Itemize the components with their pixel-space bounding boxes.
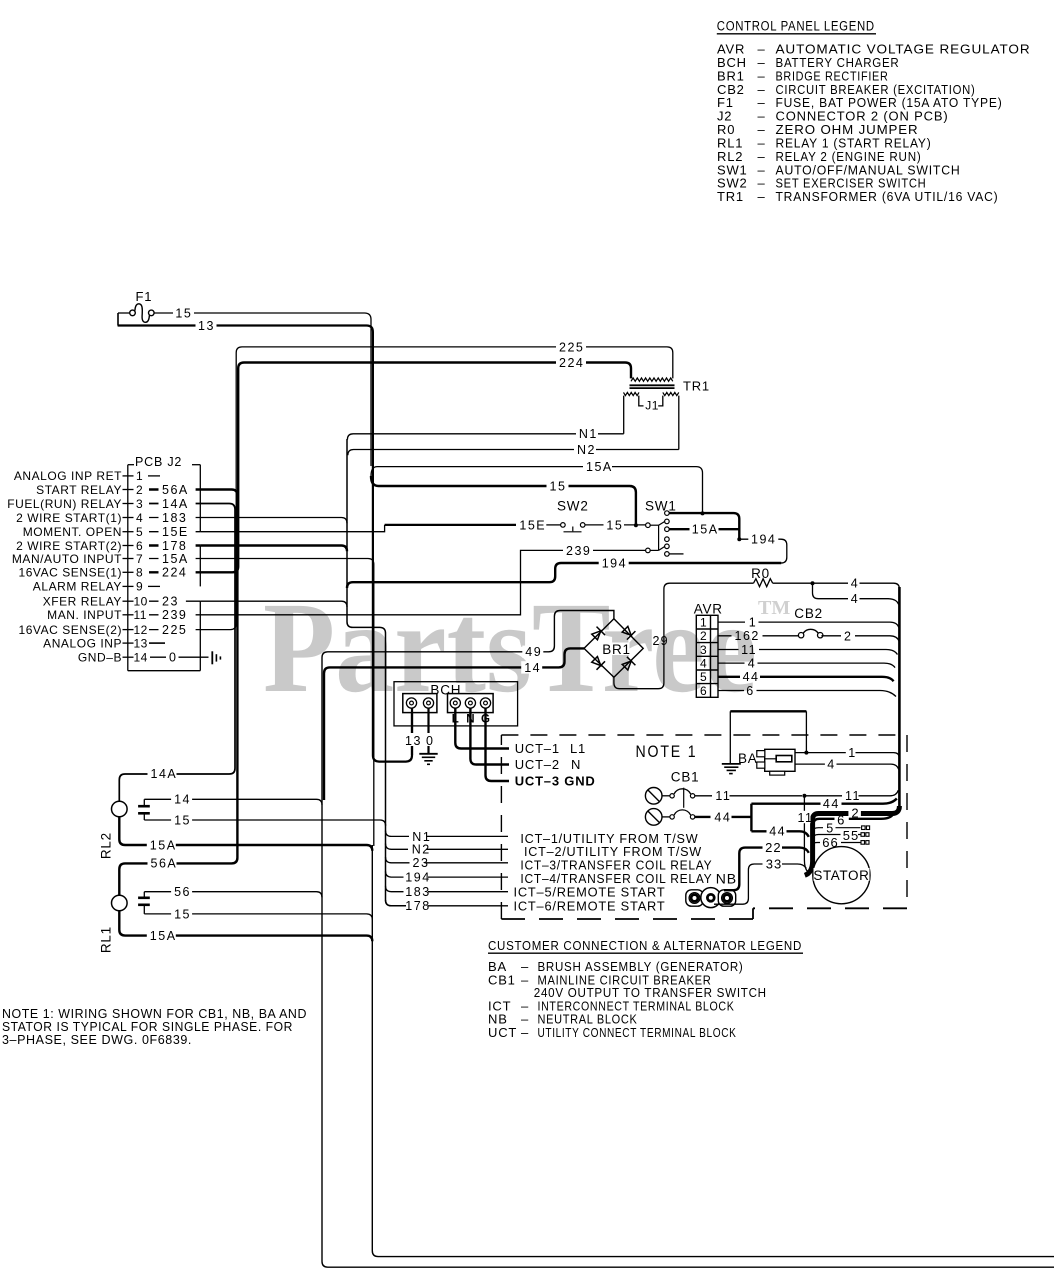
svg-text:PCB J2: PCB J2	[135, 455, 182, 469]
wire SW1 top contact to 194 node	[669, 513, 739, 539]
wire 1 AVR pin1 to bus	[718, 622, 899, 628]
svg-text:UCT–2: UCT–2	[515, 757, 560, 772]
svg-text:8: 8	[136, 566, 143, 580]
svg-text:162: 162	[735, 629, 760, 643]
wire 49-14 harness vertical right exit	[372, 845, 1054, 1257]
svg-text:CB1: CB1	[488, 972, 516, 987]
svg-text:ANALOG INP: ANALOG INP	[43, 636, 122, 650]
wire 0 from J2 pin14 to ground	[150, 656, 209, 658]
ground symbol at BA	[722, 763, 741, 765]
wire 194 from node to right elbow	[739, 539, 787, 563]
svg-text:N: N	[571, 757, 581, 772]
svg-text:1: 1	[848, 746, 856, 760]
svg-text:0: 0	[426, 734, 434, 748]
svg-text:6: 6	[136, 539, 143, 553]
wire 14 RL2 contact to harness	[144, 799, 322, 806]
wire 22 NB to stator bundle	[724, 848, 809, 891]
wire 33 NB to stator bundle	[714, 864, 806, 904]
svg-text:11: 11	[845, 789, 861, 803]
wire 44 CB1 to stator and bus	[695, 816, 752, 818]
wire 5 stator to lug	[813, 828, 861, 832]
svg-text:178: 178	[162, 539, 187, 553]
svg-text:ALARM RELAY: ALARM RELAY	[33, 580, 122, 594]
svg-text:1: 1	[136, 469, 143, 483]
svg-text:5: 5	[136, 525, 143, 539]
wire 162 AVR pin2 to CB2	[718, 635, 799, 637]
brush assembly BA	[730, 710, 806, 712]
wire 49 BR1 top to harness left	[322, 611, 1054, 1268]
svg-text:13: 13	[134, 636, 148, 650]
svg-text:2: 2	[844, 629, 852, 643]
svg-text:GND–B: GND–B	[78, 651, 122, 665]
svg-text:MOMENT. OPEN: MOMENT. OPEN	[23, 525, 122, 539]
wire 15A from U to SW1 common	[371, 467, 703, 513]
svg-text:CB1: CB1	[671, 770, 700, 785]
svg-text:6: 6	[746, 684, 754, 698]
svg-text:UTILITY CONNECT TERMINAL BLOCK: UTILITY CONNECT TERMINAL BLOCK	[538, 1025, 737, 1040]
svg-text:56A: 56A	[162, 483, 189, 497]
svg-text:2: 2	[700, 629, 707, 643]
wire 194 harness to ICT-4	[386, 871, 509, 877]
svg-text:SW1: SW1	[645, 499, 677, 514]
wire 15E J2 pin5 to SW2	[200, 525, 384, 532]
node junction 11	[802, 794, 806, 798]
svg-text:3: 3	[136, 497, 143, 511]
wire 4 AVR pin4 to bus	[718, 663, 895, 668]
svg-text:TR1: TR1	[683, 379, 710, 394]
svg-text:14: 14	[174, 793, 191, 807]
wire 15A J2 pin7 down to relay coils	[200, 559, 373, 847]
svg-text:11: 11	[798, 811, 814, 825]
svg-text:4: 4	[851, 576, 859, 590]
svg-text:15: 15	[174, 907, 191, 921]
svg-text:13: 13	[405, 734, 422, 748]
wire harness bundle to ICT terminals	[347, 439, 406, 906]
svg-text:XFER RELAY: XFER RELAY	[43, 595, 122, 609]
wire 14A J2 pin3 to RL2 coil	[119, 504, 235, 802]
svg-text:3: 3	[700, 643, 707, 657]
svg-text:15A: 15A	[692, 523, 719, 537]
wire 6 stator to bus	[814, 814, 894, 825]
svg-text:RL2: RL2	[99, 832, 114, 859]
wire 0 BCH to ground	[427, 709, 429, 754]
svg-text:UCT–1: UCT–1	[515, 741, 560, 756]
wire 23 harness to ICT-3	[386, 857, 509, 863]
svg-text:178: 178	[405, 899, 430, 913]
wire L BCH to UCT-1	[455, 709, 509, 749]
svg-text:15A: 15A	[150, 929, 177, 943]
wire 2 bus bottom to stator bundle	[805, 806, 900, 875]
svg-text:L1: L1	[570, 741, 586, 756]
svg-text:4: 4	[700, 656, 707, 670]
svg-text:4: 4	[136, 511, 143, 525]
svg-text:1: 1	[700, 615, 707, 629]
svg-text:4: 4	[851, 592, 859, 606]
svg-text:–: –	[521, 972, 529, 987]
wire 44 AVR pin5 to bus	[718, 677, 894, 682]
svg-text:5: 5	[700, 670, 707, 684]
svg-text:22: 22	[765, 840, 781, 855]
svg-text:44: 44	[714, 810, 731, 824]
wire 15 from F1 to junction U	[154, 313, 371, 466]
svg-text:BR1: BR1	[602, 642, 631, 657]
wire 29 BR1 bottom to R0	[614, 583, 754, 689]
svg-text:4: 4	[748, 656, 756, 670]
wire G BCH to UCT-3	[486, 709, 510, 782]
svg-text:ICT–5/REMOTE START: ICT–5/REMOTE START	[514, 884, 666, 899]
wire 15A SW1 middle contact	[669, 528, 689, 530]
svg-text:9: 9	[136, 580, 143, 594]
wire 66 stator to lug	[811, 843, 860, 848]
wire 225 J2 pin12 to TR1 primary	[200, 347, 673, 630]
svg-text:7: 7	[136, 552, 143, 566]
svg-text:14A: 14A	[151, 767, 178, 781]
svg-text:TR1: TR1	[717, 189, 744, 204]
svg-text:55: 55	[843, 828, 859, 843]
svg-text:225: 225	[559, 340, 584, 354]
svg-text:23: 23	[413, 856, 430, 870]
wire 15 thick from U to SW2/SW1 junction	[371, 476, 636, 525]
svg-text:33: 33	[766, 856, 782, 871]
svg-text:RL1: RL1	[99, 926, 114, 953]
svg-text:15: 15	[175, 307, 192, 321]
svg-text:10: 10	[134, 595, 148, 609]
wire N2 harness to ICT-2	[386, 844, 509, 850]
dashed box NOTE 1	[501, 734, 907, 736]
svg-text:11: 11	[715, 789, 731, 803]
wire 224 J2 pin8 to TR1 primary	[200, 363, 631, 573]
svg-text:0: 0	[169, 651, 177, 665]
svg-text:ICT–6/REMOTE START: ICT–6/REMOTE START	[514, 899, 666, 914]
svg-text:CB2: CB2	[794, 606, 823, 621]
svg-text:16VAC SENSE(2): 16VAC SENSE(2)	[18, 623, 122, 637]
node junction 15 at SW2 output	[634, 523, 638, 527]
svg-text:14A: 14A	[162, 497, 189, 511]
svg-text:5: 5	[826, 821, 834, 835]
svg-text:15: 15	[606, 518, 623, 532]
J2 no-connect dashes pins 1 9 13	[148, 475, 160, 477]
svg-text:56: 56	[174, 885, 191, 899]
relay RL1	[112, 895, 128, 911]
connector J1 on TR1 secondary	[639, 396, 644, 406]
svg-text:14: 14	[524, 661, 541, 675]
node junction BA output 1	[804, 751, 808, 755]
svg-text:BA: BA	[738, 751, 758, 766]
wire 178 J2 pin6 into harness	[200, 546, 347, 552]
wire 239 J2 pin11 to SW1	[200, 550, 645, 614]
svg-text:6: 6	[700, 684, 707, 698]
node junction 194	[737, 537, 741, 541]
wire 178 harness to ICT-6	[386, 900, 509, 906]
svg-text:AVR: AVR	[694, 602, 723, 617]
svg-text:16VAC SENSE(1): 16VAC SENSE(1)	[18, 566, 122, 580]
svg-text:44: 44	[743, 670, 760, 684]
wire 15A RL2 coil to harness	[119, 817, 372, 851]
ground symbol at J2 pin14	[211, 651, 213, 664]
svg-text:44: 44	[769, 825, 786, 839]
wire 194 SW1 to harness	[347, 563, 781, 588]
svg-text:N2: N2	[577, 443, 596, 457]
wire 23 J2 pin10 into harness	[200, 601, 347, 607]
svg-text:MAN/AUTO INPUT: MAN/AUTO INPUT	[12, 552, 122, 566]
svg-text:194: 194	[602, 557, 627, 571]
wire 15A RL1 coil to harness	[119, 911, 372, 942]
wire N1 TR1 secondary to harness	[347, 396, 623, 440]
node junction 15A at SW1	[701, 511, 705, 515]
svg-text:SW2: SW2	[557, 499, 589, 514]
battery charger BCH	[394, 682, 518, 726]
svg-text:2 WIRE START(1): 2 WIRE START(1)	[16, 511, 122, 525]
svg-text:15: 15	[174, 813, 191, 827]
svg-text:TM: TM	[758, 597, 790, 619]
svg-text:15A: 15A	[162, 552, 189, 566]
svg-text:13: 13	[198, 319, 215, 333]
svg-text:R0: R0	[751, 566, 770, 581]
svg-text:44: 44	[823, 797, 840, 811]
SW1 stub contact	[669, 553, 683, 555]
wire 13 label at BCH	[411, 709, 413, 756]
svg-text:15E: 15E	[519, 518, 546, 532]
svg-text:F1: F1	[136, 289, 153, 304]
wire 15 RL2 contact to harness	[144, 813, 385, 825]
svg-text:STATOR: STATOR	[813, 868, 869, 883]
svg-text:FUEL(RUN) RELAY: FUEL(RUN) RELAY	[7, 497, 122, 511]
svg-text:CUSTOMER CONNECTION & ALTERNAT: CUSTOMER CONNECTION & ALTERNATOR LEGEND	[488, 938, 802, 953]
wire 15 RL1 contact to harness	[144, 905, 372, 920]
svg-text:ANALOG INP RET: ANALOG INP RET	[14, 469, 122, 483]
svg-text:MAN. INPUT: MAN. INPUT	[47, 608, 122, 622]
svg-text:–: –	[758, 189, 766, 204]
wire 14 BR1 left to relay RL2	[324, 648, 584, 800]
svg-text:49: 49	[525, 645, 542, 659]
bridge rectifier BR1	[584, 619, 643, 678]
wire 55 stator to lug	[813, 835, 861, 840]
svg-text:11: 11	[134, 608, 147, 622]
svg-text:11: 11	[741, 643, 757, 657]
wire 183 harness to ICT-5	[386, 886, 509, 892]
wire 4 BA to bus	[795, 764, 899, 770]
svg-text:225: 225	[162, 623, 187, 637]
svg-text:UCT: UCT	[488, 1025, 517, 1040]
wire 11 AVR pin3 to bus	[718, 650, 898, 655]
wire 6 AVR pin6 to bus	[718, 691, 896, 697]
svg-text:15A: 15A	[586, 460, 613, 474]
svg-text:14: 14	[134, 651, 148, 665]
svg-text:23: 23	[162, 595, 179, 609]
svg-text:PartsTree: PartsTree	[263, 576, 757, 720]
svg-text:56A: 56A	[151, 857, 178, 871]
svg-text:N2: N2	[412, 843, 431, 857]
stator	[813, 847, 870, 904]
svg-text:TRANSFORMER (6VA UTIL/16 VAC): TRANSFORMER (6VA UTIL/16 VAC)	[776, 189, 999, 204]
wire 11 node to stator bundle	[804, 796, 807, 872]
svg-text:N1: N1	[412, 830, 431, 844]
svg-text:CONTROL PANEL LEGEND: CONTROL PANEL LEGEND	[717, 19, 875, 34]
wire 1 BA to bus	[795, 753, 899, 759]
svg-text:12: 12	[134, 623, 148, 637]
svg-text:NB: NB	[716, 871, 737, 887]
svg-text:183: 183	[162, 511, 187, 525]
svg-text:239: 239	[162, 608, 187, 622]
wire N2 TR1 secondary to harness	[348, 396, 679, 456]
J2 pin ticks and numbers	[123, 475, 134, 477]
svg-text:224: 224	[162, 566, 187, 580]
svg-text:UCT–3 GND: UCT–3 GND	[515, 774, 596, 789]
wire 2 CB2 to bus	[821, 636, 899, 642]
wire 183 J2 pin4 into harness	[200, 518, 347, 524]
node junction on R0 wire	[811, 581, 815, 585]
svg-text:START RELAY: START RELAY	[36, 483, 122, 497]
wire N BCH to UCT-2	[470, 709, 509, 765]
ground symbol below BCH	[419, 753, 437, 755]
svg-text:194: 194	[751, 533, 776, 547]
svg-text:15A: 15A	[150, 838, 177, 852]
wire 56 RL1 contact to harness	[144, 892, 322, 898]
svg-text:194: 194	[405, 871, 430, 885]
relay RL2	[112, 801, 128, 817]
svg-text:15: 15	[550, 479, 567, 493]
svg-text:–: –	[521, 1025, 529, 1040]
svg-text:29: 29	[653, 634, 669, 648]
svg-text:2: 2	[136, 483, 143, 497]
svg-text:183: 183	[405, 885, 430, 899]
svg-text:NOTE 1: NOTE 1	[636, 742, 698, 761]
svg-text:2 WIRE START(2): 2 WIRE START(2)	[16, 539, 122, 553]
svg-text:239: 239	[566, 544, 591, 558]
svg-text:6: 6	[837, 813, 845, 828]
wire 56A J2 pin2 to RL1 coil	[119, 490, 237, 896]
svg-text:4: 4	[827, 758, 835, 772]
svg-text:J1: J1	[645, 399, 659, 413]
transformer TR1	[631, 378, 673, 381]
svg-text:15E: 15E	[162, 525, 189, 539]
wire right bus vertical	[898, 587, 901, 809]
wire 11 CB1 to stator node	[695, 795, 802, 797]
wire 13 from F1 down to BCH terminal 13	[118, 326, 412, 762]
svg-text:3–PHASE, SEE DWG. 0F6839.: 3–PHASE, SEE DWG. 0F6839.	[2, 1032, 192, 1047]
svg-text:1: 1	[749, 615, 757, 629]
svg-text:N1: N1	[579, 427, 598, 441]
wire N1 harness to ICT-1	[386, 831, 509, 837]
wire 4 second from junction to bus	[813, 583, 899, 604]
svg-text:224: 224	[559, 356, 584, 370]
